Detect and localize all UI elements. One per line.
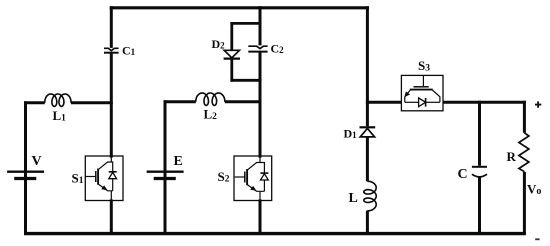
wire S3 to output: [443, 101, 526, 104]
wire E branch vertical: [164, 100, 167, 234]
battery E: [147, 172, 184, 179]
inductor L: [364, 181, 376, 211]
wire L2 horizontal: [164, 100, 262, 103]
wire S3 horizontal left: [366, 101, 402, 104]
wire C1/S1 branch vertical: [110, 6, 113, 234]
diode D1: [360, 127, 376, 137]
wire bottom rail: [24, 232, 526, 235]
svg-text:E: E: [174, 154, 183, 169]
svg-text:R: R: [507, 149, 517, 164]
capacitor C2: [248, 46, 267, 51]
wire C branch vertical: [478, 101, 481, 235]
transistor S3: [401, 75, 443, 110]
label minus: [535, 238, 539, 240]
svg-text:V: V: [32, 154, 42, 169]
svg-text:C: C: [458, 167, 468, 182]
wire L1 horizontal: [24, 101, 113, 104]
transistor S1: [85, 156, 123, 201]
capacitor C: [472, 167, 487, 177]
label plus: [535, 101, 541, 107]
battery V: [7, 172, 44, 179]
wire D1/L branch vertical: [366, 6, 369, 234]
wire C2/S2 branch vertical: [259, 6, 262, 234]
resistor R: [519, 133, 529, 172]
diode D2: [224, 50, 240, 58]
wire R branch vertical: [523, 101, 526, 235]
inductor L1: [45, 94, 71, 106]
inductor L2: [196, 93, 225, 105]
wire V branch vertical: [24, 101, 27, 234]
wire top rail: [110, 6, 369, 9]
transistor S2: [234, 156, 272, 201]
svg-text:L: L: [349, 191, 358, 206]
wire D2 loop: [230, 22, 260, 82]
capacitor C1: [104, 48, 119, 52]
